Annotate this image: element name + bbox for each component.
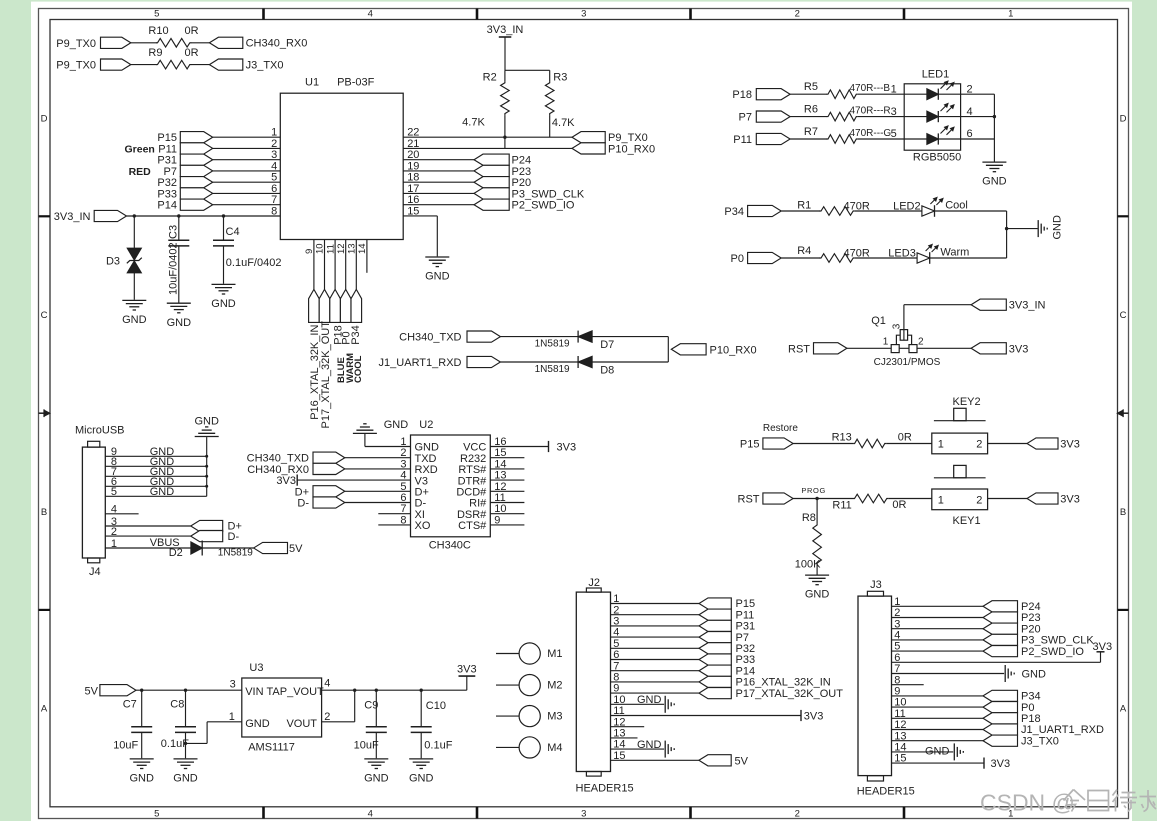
svg-text:Restore: Restore	[763, 423, 798, 434]
pin number J2-3	[613, 616, 619, 628]
pin number 6	[967, 128, 973, 140]
wire R10 row	[131, 42, 210, 44]
wire RST to R11	[793, 498, 853, 500]
svg-text:P10_RX0: P10_RX0	[608, 143, 655, 155]
led element row 2	[904, 104, 960, 123]
port P23 J3	[983, 612, 1041, 624]
junction C8 branch	[184, 742, 187, 745]
port P32 (U1 pin 5)	[157, 177, 212, 190]
svg-text:D+: D+	[415, 487, 429, 499]
pin number J2-15	[613, 750, 625, 762]
ground GND D3	[122, 300, 147, 326]
frame left mid arrow	[39, 409, 50, 417]
svg-text:1N5819: 1N5819	[535, 339, 570, 350]
svg-text:P0: P0	[731, 253, 744, 265]
pin number 15	[407, 205, 419, 217]
svg-text:B: B	[41, 507, 47, 518]
port P7 J2	[699, 632, 749, 644]
svg-text:470R: 470R	[844, 247, 870, 259]
pin number J2-4	[613, 627, 619, 639]
pin number 12	[336, 243, 347, 254]
svg-text:J1_UART1_RXD: J1_UART1_RXD	[379, 357, 462, 369]
wire U2 pin 7 stub	[378, 513, 410, 515]
wire LED1 pin 6	[961, 138, 995, 140]
wire U2 pin 6	[345, 502, 411, 504]
wire J4 pin 1 VBUS	[105, 537, 191, 550]
port P31 J2	[699, 620, 755, 632]
pin name R232	[460, 453, 486, 465]
port P11 J2	[699, 609, 754, 621]
wire U1 pin 13 bottom	[355, 240, 357, 290]
wire U2 pin 9 stub	[490, 524, 524, 526]
svg-text:CH340_TXD: CH340_TXD	[399, 332, 461, 344]
frame right mid arrow	[1117, 409, 1128, 417]
wire J3 pin 7 GND	[892, 669, 1047, 681]
port J3_TX0 J3	[983, 735, 1059, 747]
port bottom pin 12	[340, 289, 351, 322]
transistor Q1 CJ2301/PMOS	[871, 315, 940, 368]
wire U1 pin 14 bottom	[366, 240, 368, 273]
pin name VCC	[463, 442, 486, 454]
svg-text:5: 5	[111, 486, 117, 498]
junction VOUT rail	[353, 689, 356, 692]
svg-text:P20: P20	[1021, 623, 1041, 635]
svg-text:HEADER15: HEADER15	[576, 782, 634, 794]
wire R9 row	[131, 64, 210, 66]
wire J2 pin 6	[611, 659, 700, 661]
port D+ to U2	[295, 486, 345, 499]
port P32 J2	[699, 643, 755, 655]
svg-text:GND: GND	[364, 773, 389, 785]
port P11 (U1 pin 2)	[158, 143, 212, 156]
wire U2 pin 2	[345, 457, 411, 459]
pin number J3-9	[894, 686, 900, 698]
port RST	[788, 343, 847, 356]
svg-text:5V: 5V	[85, 685, 99, 697]
pin number J2-7	[613, 660, 619, 672]
pin number 4	[271, 160, 277, 172]
junction J4 bus pin 6	[205, 485, 208, 488]
svg-text:GND: GND	[409, 773, 434, 785]
port P3_SWD_CLK J3	[983, 634, 1094, 646]
wire D7 D8 bus	[667, 337, 669, 362]
svg-text:3V3: 3V3	[557, 442, 577, 454]
svg-text:CH340C: CH340C	[429, 539, 471, 551]
junction rail C4	[222, 214, 225, 217]
port D-	[191, 531, 240, 543]
wire J3 pin 8 stub	[892, 684, 924, 686]
switch KEY2	[932, 396, 988, 454]
pin name D+	[415, 487, 429, 499]
port 5V J2	[699, 755, 749, 768]
svg-text:P32: P32	[157, 177, 177, 189]
ground GND U1 pin15	[425, 257, 450, 283]
pin number 12	[494, 481, 506, 493]
wire U1 pin 19	[403, 170, 474, 172]
svg-text:4: 4	[368, 808, 373, 819]
port D- to U2	[297, 497, 344, 510]
connector J3 HEADER15 body	[857, 579, 915, 797]
svg-text:5: 5	[400, 481, 406, 493]
svg-text:470R---G: 470R---G	[850, 128, 892, 139]
svg-text:P24: P24	[512, 155, 532, 167]
svg-text:P7: P7	[739, 112, 752, 124]
net label P34	[350, 325, 362, 345]
pin number J3-3	[894, 618, 900, 630]
pin name D-	[415, 498, 427, 510]
led module LED1 box	[904, 69, 961, 164]
port P9_TX0 right	[572, 132, 648, 145]
regulator U3 AMS1117 body	[229, 662, 331, 753]
wire J3 pin 3	[892, 628, 984, 630]
port P18	[732, 89, 790, 102]
resistor R4	[781, 245, 917, 262]
ic U1 PB-03F body	[280, 76, 403, 239]
ground GND J3 pin14 rotated	[954, 743, 963, 760]
pin number J3-14	[894, 742, 906, 754]
net label P16_XTAL_32K_IN	[309, 325, 321, 420]
pin number J3-15	[894, 753, 906, 765]
pin number 18	[407, 172, 419, 184]
port P24	[474, 154, 531, 167]
pin number J3-5	[894, 641, 900, 653]
svg-text:D: D	[41, 113, 48, 124]
wire to GND rotated	[1007, 228, 1038, 230]
wire U1 pin 16	[403, 204, 474, 206]
pin number 20	[407, 149, 419, 161]
pin number 5	[400, 481, 406, 493]
svg-text:GND: GND	[1052, 215, 1064, 240]
svg-text:D: D	[1120, 113, 1127, 124]
label Warm	[940, 246, 969, 258]
wire J3 pin 13	[892, 740, 984, 742]
wire J4 pin 4 stub	[105, 504, 138, 516]
wire J2 pin 13 stub	[611, 737, 638, 739]
svg-text:3V3_IN: 3V3_IN	[487, 24, 524, 36]
ground GND C10	[409, 759, 434, 785]
svg-text:CH340_TXD: CH340_TXD	[247, 453, 309, 465]
frame top ticks	[264, 9, 905, 20]
label PROG	[801, 486, 826, 495]
ic U2 CH340C body	[411, 419, 491, 552]
svg-text:J4: J4	[89, 566, 101, 578]
svg-text:VCC: VCC	[463, 442, 486, 454]
resistor R1	[781, 199, 922, 215]
port CH340_TXD to U2	[247, 452, 345, 465]
wire J2 pin 9	[611, 692, 700, 694]
svg-text:CH340_RX0: CH340_RX0	[246, 38, 308, 50]
port P3_SWD_CLK	[474, 188, 585, 201]
port P9_TX0	[56, 37, 131, 50]
pin number 13	[347, 243, 358, 254]
pin number 19	[407, 160, 419, 172]
wire J4 pin 5 GND	[105, 486, 206, 498]
pin number 11	[325, 244, 336, 254]
port P23	[474, 165, 531, 178]
junction R2 P9_TX0 line	[503, 136, 506, 139]
power port 3V3_IN left	[54, 210, 127, 223]
svg-text:D7: D7	[600, 339, 614, 351]
pin number 2	[967, 83, 973, 95]
svg-text:XI: XI	[415, 509, 425, 521]
svg-text:P0: P0	[1021, 702, 1034, 714]
svg-text:2: 2	[976, 439, 982, 451]
wire J2 pin 12 stub	[611, 726, 645, 728]
port D+	[191, 520, 242, 532]
port bottom pin 11	[330, 289, 341, 322]
svg-text:P18: P18	[1021, 713, 1041, 725]
svg-text:R8: R8	[802, 512, 816, 524]
svg-text:3V3: 3V3	[1060, 438, 1080, 450]
svg-text:5: 5	[271, 172, 277, 184]
svg-text:U1: U1	[305, 76, 319, 88]
svg-text:4: 4	[324, 678, 330, 690]
pin number J2-1	[613, 593, 619, 605]
svg-text:P34: P34	[724, 206, 744, 218]
svg-text:2: 2	[795, 808, 800, 819]
wire KEY2 to 3V3	[988, 443, 1027, 445]
svg-text:3V3: 3V3	[276, 475, 296, 487]
frame row labels right	[1120, 113, 1127, 714]
svg-text:13: 13	[347, 243, 358, 254]
capacitor C10 0.1uF	[411, 690, 453, 758]
svg-text:P32: P32	[736, 643, 756, 655]
port P16_XTAL_32K_IN J2	[699, 676, 831, 688]
svg-text:J3: J3	[870, 579, 882, 591]
port P17_XTAL_32K_OUT J2	[699, 688, 843, 700]
svg-text:0.1uF/0402: 0.1uF/0402	[226, 257, 282, 269]
svg-text:M3: M3	[547, 711, 562, 723]
pin number 8	[400, 514, 406, 526]
svg-text:RED: RED	[129, 166, 152, 178]
wire U1 pin 10 bottom	[324, 240, 326, 290]
wire U1 pin 2	[213, 147, 281, 149]
wire LED2 to bus	[935, 210, 1007, 212]
ground GND J2 pin10 rotated	[665, 696, 674, 713]
svg-text:Green: Green	[125, 144, 155, 156]
svg-text:0R: 0R	[185, 25, 199, 37]
wire 3V3_IN to Q1 gate	[904, 305, 971, 331]
svg-text:R10: R10	[148, 25, 168, 37]
svg-text:GND: GND	[122, 314, 147, 326]
svg-text:C7: C7	[123, 699, 137, 711]
svg-text:GND: GND	[167, 317, 192, 329]
wire J4 pin 6 GND	[105, 476, 206, 488]
pin number 6	[400, 492, 406, 504]
svg-text:1: 1	[883, 337, 889, 348]
svg-text:9: 9	[304, 249, 315, 254]
wire J4 pin 2 D-	[105, 526, 190, 538]
svg-text:C4: C4	[226, 226, 240, 238]
svg-text:CTS#: CTS#	[458, 520, 487, 532]
pin number 13	[494, 470, 506, 482]
svg-text:3: 3	[230, 679, 236, 691]
wire U1 pin 7	[213, 204, 281, 206]
svg-text:P20: P20	[512, 177, 532, 189]
svg-text:VOUT: VOUT	[286, 718, 317, 730]
wire J2 pin 7	[611, 670, 700, 672]
ground GND J3 pin7 rotated	[1005, 665, 1014, 682]
port P15 J2	[699, 598, 755, 610]
junction C9	[375, 689, 378, 692]
pin name DCD#	[456, 487, 487, 499]
svg-text:GND: GND	[129, 773, 154, 785]
wire J4 pin 9 GND	[105, 446, 206, 458]
pin number J3-11	[894, 708, 905, 720]
svg-text:DTR#: DTR#	[458, 475, 488, 487]
capacitor C9 10uF	[354, 690, 387, 758]
wire J2 pin 15 5V	[611, 759, 699, 761]
power 3V3 J3 pin6	[892, 641, 1113, 662]
switch KEY1	[932, 465, 988, 527]
svg-text:GND: GND	[1022, 669, 1047, 681]
wire U2 pin 3	[345, 468, 411, 470]
frame row labels left	[41, 113, 48, 714]
port bottom pin 10	[319, 289, 330, 322]
wire KEY1 to 3V3	[988, 498, 1027, 500]
wire J4 pin 8 GND	[105, 456, 206, 468]
ground GND J2 pin14 rotated	[665, 741, 674, 758]
power 3V3 output	[457, 663, 477, 690]
page background green margin right	[1132, 0, 1157, 821]
svg-text:R11: R11	[832, 500, 851, 512]
pin number J2-5	[613, 638, 619, 650]
pin number J3-2	[894, 607, 900, 619]
svg-text:4: 4	[400, 470, 406, 482]
wire U1 pin 20	[403, 159, 474, 161]
svg-text:R7: R7	[804, 126, 818, 138]
svg-text:GND: GND	[173, 773, 198, 785]
wire J3 pin 2	[892, 617, 984, 619]
svg-text:LED2: LED2	[893, 200, 921, 212]
diode D2 1N5819	[169, 541, 254, 559]
svg-text:470R: 470R	[844, 200, 870, 212]
pin number 14	[357, 243, 368, 254]
svg-text:V3: V3	[415, 475, 428, 487]
svg-text:GND: GND	[925, 745, 950, 757]
port P24 J3	[983, 601, 1041, 613]
svg-text:HEADER15: HEADER15	[857, 785, 915, 797]
svg-text:1: 1	[891, 83, 897, 95]
svg-text:C: C	[1120, 310, 1127, 321]
svg-text:P33: P33	[736, 654, 756, 666]
svg-text:PB-03F: PB-03F	[337, 76, 375, 88]
svg-text:2: 2	[400, 447, 406, 459]
port P14 J2	[699, 665, 755, 677]
svg-text:2: 2	[324, 711, 330, 723]
wire U1 pin 12 bottom	[345, 240, 347, 290]
page background green margin top	[31, 0, 1132, 2]
wire LED1 pin 2	[961, 93, 995, 95]
pin number 14	[494, 458, 506, 470]
port P0	[731, 252, 782, 265]
svg-text:TAP_VOUT: TAP_VOUT	[267, 686, 325, 698]
svg-text:GND: GND	[211, 298, 236, 310]
ground GND U2 pin1	[353, 419, 411, 447]
svg-text:6: 6	[271, 183, 277, 195]
resistor R11 0R	[832, 494, 931, 511]
svg-text:GND: GND	[245, 718, 270, 730]
svg-text:1: 1	[229, 711, 235, 723]
svg-text:J3_TX0: J3_TX0	[246, 59, 284, 71]
pin number J3-12	[894, 719, 906, 731]
svg-text:KEY2: KEY2	[953, 396, 981, 408]
wire J2 pin 4	[611, 636, 700, 638]
wire 5V rail	[136, 689, 242, 691]
svg-text:3V3: 3V3	[1093, 641, 1113, 653]
pin number J2-8	[613, 672, 619, 684]
svg-text:7: 7	[271, 194, 277, 206]
pin name XO	[415, 520, 431, 532]
ground GND C8	[173, 759, 198, 785]
wire J4 pin 3 D+	[105, 516, 190, 528]
led LED3	[888, 245, 938, 264]
svg-text:3: 3	[271, 149, 277, 161]
svg-text:7: 7	[400, 503, 406, 515]
svg-text:4: 4	[271, 160, 277, 172]
svg-text:PROG: PROG	[801, 486, 826, 495]
pin number 3	[271, 149, 277, 161]
wire U1 pin 17	[403, 192, 474, 194]
svg-text:DSR#: DSR#	[457, 509, 487, 521]
pin name XI	[415, 509, 425, 521]
svg-text:0.1uF: 0.1uF	[424, 739, 452, 751]
port 3V3 KEY2	[1027, 438, 1080, 451]
watermark CSDN	[980, 790, 1075, 816]
svg-text:10: 10	[315, 243, 326, 254]
led element row 3	[904, 126, 960, 145]
capacitor C8 0.1uF	[161, 690, 196, 758]
pin name RI#	[469, 498, 487, 510]
wire J3 pin 15 3V3	[892, 758, 1011, 770]
mounting hole M1	[496, 643, 562, 664]
resistor R5	[790, 81, 904, 99]
wire U2 pin 12 stub	[490, 490, 524, 492]
junction LED1 bus	[993, 115, 996, 118]
svg-text:1: 1	[400, 436, 406, 448]
svg-text:R13: R13	[832, 431, 852, 443]
svg-text:4.7K: 4.7K	[462, 117, 485, 129]
wire LED1 pin 4	[961, 116, 995, 118]
resistor R2	[462, 70, 509, 148]
svg-text:B: B	[1120, 507, 1126, 518]
svg-text:0R: 0R	[185, 47, 199, 59]
svg-text:LED1: LED1	[922, 69, 950, 81]
junction rail D3	[133, 214, 136, 217]
wire J3 pin 9	[892, 695, 984, 697]
port P33 J2	[699, 654, 755, 666]
port P2_SWD_IO J3	[983, 646, 1084, 658]
svg-text:P17_XTAL_32K_OUT: P17_XTAL_32K_OUT	[320, 321, 332, 429]
port CH340_RX0 to U2	[247, 463, 345, 476]
port P7	[739, 111, 791, 124]
port CH340_TXD	[399, 331, 500, 344]
svg-text:R9: R9	[148, 47, 162, 59]
ground GND C4	[211, 284, 236, 310]
svg-text:5: 5	[154, 9, 159, 20]
svg-text:3V3: 3V3	[804, 710, 824, 722]
svg-text:M1: M1	[547, 648, 562, 660]
svg-text:R5: R5	[804, 81, 818, 93]
pin number 7	[271, 194, 277, 206]
svg-text:3: 3	[400, 458, 406, 470]
svg-text:P3_SWD_CLK: P3_SWD_CLK	[512, 188, 585, 200]
pin number 21	[407, 138, 419, 150]
svg-text:P18: P18	[732, 89, 752, 101]
svg-text:P15: P15	[157, 132, 177, 144]
svg-text:P10_RX0: P10_RX0	[710, 344, 757, 356]
svg-text:P24: P24	[1021, 601, 1041, 613]
